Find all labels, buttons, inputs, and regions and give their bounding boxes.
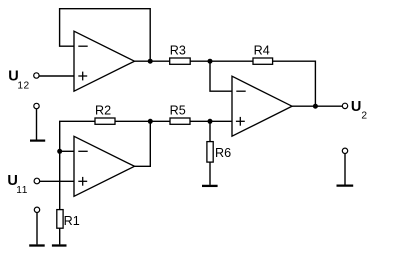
label U2 [351, 99, 368, 122]
svg-text:U: U [351, 99, 361, 115]
svg-text:R5: R5 [170, 104, 186, 118]
wire: output reference to ground [344, 154, 346, 185]
wire: node B to U2 inverting input [210, 61, 232, 91]
terminal U12 [34, 73, 39, 78]
resistor R2 [95, 118, 115, 124]
node: U3 inverting junction [57, 149, 62, 154]
ground (R1) [52, 244, 67, 246]
node: U2 output junction [313, 104, 318, 109]
wire: U2 output to terminal [292, 105, 342, 107]
node D (R5/R6/U2 non-inverting junction) [208, 119, 213, 124]
terminal U2 [342, 103, 347, 108]
svg-text:11: 11 [16, 185, 28, 196]
ground (U11 reference) [29, 244, 45, 246]
wire: R3 to node B [190, 60, 253, 62]
resistor R4 [253, 58, 273, 64]
wire: U12 to U1 non-inverting input [39, 75, 74, 77]
resistor R3 [170, 58, 191, 64]
wire: R5 to node D [190, 120, 210, 122]
ground (output reference) [337, 184, 354, 186]
wire: U11 reference to ground [36, 213, 38, 245]
terminal output reference [342, 148, 347, 153]
wire: node C to U3 output [135, 121, 151, 166]
svg-text:12: 12 [17, 80, 29, 91]
resistor R6 [207, 142, 213, 163]
svg-text:R6: R6 [215, 146, 231, 160]
resistor R5 [170, 118, 190, 124]
wire: U1 output to R3 [135, 60, 170, 62]
ground (R6) [202, 185, 218, 187]
node B (R3/R4 junction) [208, 59, 213, 64]
ground (U12 reference) [30, 140, 45, 142]
label U11 [7, 173, 27, 196]
wire: U12 reference to ground [36, 109, 38, 140]
op-amp U1 (buffer) [74, 31, 135, 91]
svg-text:R3: R3 [170, 44, 186, 58]
wire: R2 to node C [115, 120, 170, 122]
wire: U1 feedback loop (output to inverting input) [60, 9, 151, 62]
wire: node D to R6 [209, 121, 211, 141]
wire: R4 to U2 output [273, 61, 316, 106]
wire: U11 to U3 non-inverting input [40, 180, 74, 182]
node C (R2/R5/U3 output junction) [148, 119, 153, 124]
terminal U11 reference [34, 207, 39, 212]
wire: R6 to ground [209, 162, 211, 185]
label U12 [8, 69, 30, 92]
svg-text:R4: R4 [254, 44, 270, 58]
wire: R1 to ground [59, 228, 61, 244]
wire: R2 left to inverting column of U3 [60, 121, 95, 209]
wire: node D to U2 non-inverting input [210, 120, 232, 122]
wire: junction to U3 inverting input [60, 150, 74, 152]
terminal U11 [34, 178, 40, 184]
op-amp U2 [232, 76, 292, 136]
resistor R1 [57, 210, 63, 229]
svg-text:R2: R2 [95, 104, 111, 118]
svg-text:R1: R1 [64, 214, 80, 228]
svg-text:2: 2 [361, 111, 367, 122]
node: U1 output junction [148, 59, 153, 64]
terminal U12 reference [34, 103, 39, 108]
op-amp U3 [74, 136, 135, 196]
